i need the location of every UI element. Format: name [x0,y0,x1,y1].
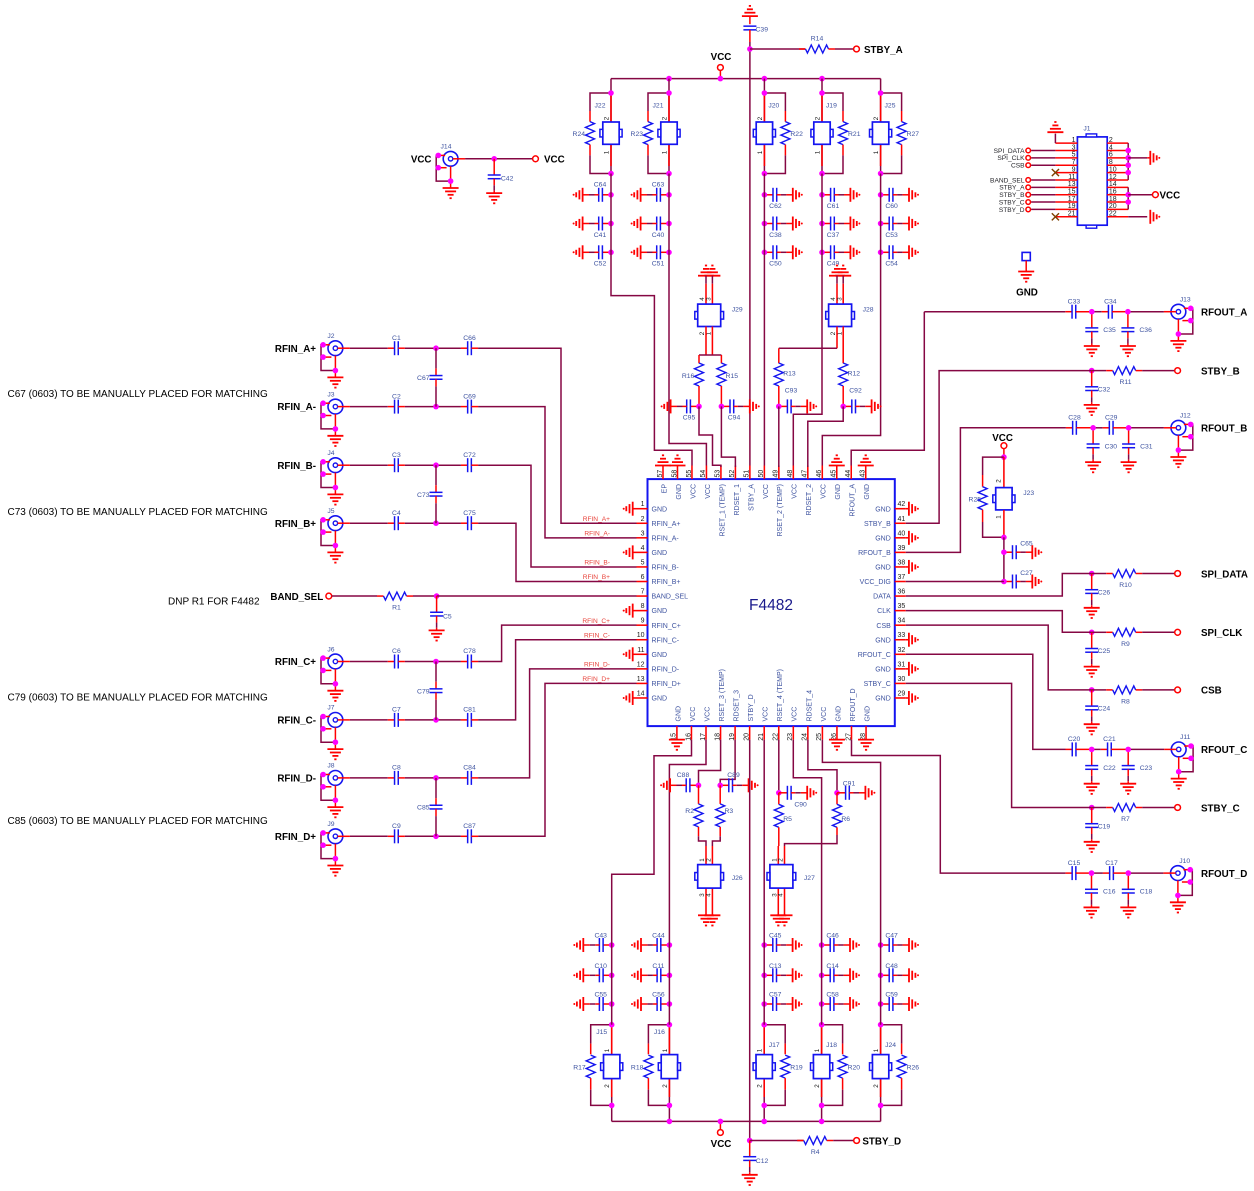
svg-text:58: 58 [671,470,678,478]
svg-text:3: 3 [836,297,843,301]
svg-text:RFIN_B+: RFIN_B+ [652,579,681,586]
svg-text:DNP R1 FOR F4482: DNP R1 FOR F4482 [168,597,260,608]
pin 24 RDSET_4 (bottom) [802,690,814,741]
svg-text:VCC: VCC [1160,191,1181,202]
junction SPI_CLK node [1089,630,1095,636]
terminal CSB (J1) [1011,163,1055,170]
wire RFIN_B- to IC [478,465,636,567]
svg-text:C93: C93 [785,387,798,394]
note text C73 [8,507,268,518]
svg-text:C34: C34 [1104,298,1117,305]
svg-text:RFIN_B-: RFIN_B- [652,565,680,572]
resistor R8 [1092,686,1175,706]
svg-text:4: 4 [706,893,713,897]
junction J15 bottom [609,1103,615,1109]
svg-text:C61: C61 [827,203,840,210]
svg-text:J21: J21 [653,102,664,109]
svg-text:VCC: VCC [705,484,712,499]
svg-text:R18: R18 [631,1065,644,1072]
pin 39 RFOUT_B (right) [858,545,906,557]
capacitor C85 (matching) [417,778,442,836]
svg-text:STBY_B: STBY_B [864,521,891,528]
svg-text:41: 41 [898,516,906,523]
power VCC (bottom bus) [711,1119,732,1150]
svg-text:1: 1 [873,1048,880,1052]
pin 2 (J1 right) [1107,137,1128,144]
wire CLK from pin 35 [906,611,1092,633]
pin 35 CLK (right) [877,603,906,615]
capacitor C36 (shunt) [1120,309,1152,356]
note text C67 [8,389,268,400]
pin 10 (J1 right) [1107,166,1128,173]
terminal VCC (right) [533,155,565,166]
capacitor C22 (shunt) [1084,747,1116,794]
svg-text:RFIN_A+: RFIN_A+ [275,344,316,355]
svg-text:13: 13 [1068,181,1076,188]
resistor R2 [685,785,703,836]
capacitor C24 (shunt) [1084,690,1111,735]
wire RFIN_D- to IC [478,669,636,778]
terminal BAND_SEL [270,592,331,603]
capacitor C81 [461,707,478,727]
wire RFIN_C+ chain [350,661,461,663]
junction J20 bottom [762,171,768,177]
pin 13 RFIN_D+ (left) [637,676,681,688]
svg-text:C5: C5 [443,613,452,620]
capacitor C61 [819,188,860,210]
svg-text:36: 36 [898,589,906,596]
no-connect X (J1 pin 21) [1052,213,1059,220]
resistor R1 [332,592,437,612]
wire RFIN_D- chain [350,777,461,779]
wire J24 VCC to pin 25 [822,740,880,945]
junction J18 bus [819,1119,825,1125]
capacitor C49 [819,245,860,267]
pin 42 GND (right) [875,501,919,516]
svg-text:5: 5 [641,559,645,566]
svg-text:GND: GND [875,637,891,644]
wire RSET_1 to pin 53 [699,406,721,467]
junction STBY_A node [747,46,753,52]
resistor R14 [750,36,854,53]
svg-text:C41: C41 [594,232,607,239]
capacitor C62 [762,188,803,210]
terminal STBY_A (J1) [999,185,1055,192]
svg-text:GND: GND [652,550,668,557]
svg-text:RFIN_D-: RFIN_D- [584,662,610,669]
svg-text:R26: R26 [907,1065,920,1072]
svg-text:R7: R7 [1121,816,1130,823]
svg-text:C72: C72 [463,452,476,459]
svg-text:VCC: VCC [704,707,711,722]
junction J25 top [878,90,884,96]
net label RFIN_C+ [582,618,610,625]
wire J28 pin 2 to R13 [779,327,837,349]
pin 4 GND (left) [623,545,667,560]
svg-text:12: 12 [637,661,645,668]
capacitor C88 [660,772,701,792]
svg-text:53: 53 [715,470,722,478]
jumper J18 [811,1027,838,1097]
capacitor C12 [742,1141,769,1186]
svg-text:R13: R13 [783,371,796,378]
svg-text:C54: C54 [885,261,898,268]
junction bus J21 [666,76,672,82]
capacitor C95 [661,399,702,421]
capacitor C39 [743,26,768,42]
pin 3 RFIN_A- (left) [637,530,680,542]
wire J19 branch [822,79,843,174]
capacitor C5 [429,596,452,641]
svg-text:J3: J3 [327,391,334,398]
wire RFIN_D+ chain [350,835,461,837]
capacitor C60 [878,188,919,210]
junction RFIN_A+ mid [433,345,439,351]
svg-text:C79: C79 [417,688,430,695]
resistor R5 [774,793,792,846]
svg-text:C43: C43 [594,933,607,940]
pin 13 (J1 left) [1055,181,1077,188]
svg-text:38: 38 [898,559,906,566]
svg-text:RFOUT_D: RFOUT_D [850,688,857,721]
svg-text:SPI_CLK: SPI_CLK [1201,628,1242,639]
svg-text:50: 50 [758,470,765,478]
svg-text:J19: J19 [826,102,837,109]
note text C79 [8,692,268,703]
pin 5 RFIN_B- (left) [637,559,680,571]
svg-text:14: 14 [1109,181,1117,188]
svg-text:C14: C14 [826,963,839,970]
svg-text:8: 8 [641,603,645,610]
svg-text:GND: GND [652,652,668,659]
resistor R25 [969,457,1004,537]
wire STBY_C from pin 30 [906,683,1092,807]
junction SPI_DATA node [1089,571,1095,577]
svg-text:STBY_D: STBY_D [748,694,755,721]
capacitor C64 [573,182,614,202]
capacitor C19 (shunt) [1084,808,1111,853]
svg-text:J25: J25 [885,102,896,109]
svg-text:RFIN_B+: RFIN_B+ [275,519,316,530]
svg-text:R22: R22 [790,131,803,138]
svg-text:J22: J22 [595,102,606,109]
resistor R20 [838,1044,860,1090]
capacitor C92 [840,387,881,413]
terminal STBY_B (J1) [999,192,1055,199]
svg-text:1: 1 [603,150,610,154]
wire VCC to terminal [465,158,532,160]
svg-text:RFOUT_B: RFOUT_B [858,550,891,557]
wire J21 VCC to pin 54 [669,252,706,465]
svg-text:J11: J11 [1180,734,1191,741]
junction RFIN_A- mid [433,404,439,410]
svg-text:18: 18 [1109,196,1117,203]
node RFIN_D+ [275,832,316,843]
wire J19 VCC to pin 48 [793,252,822,465]
svg-text:43: 43 [860,470,867,478]
svg-text:C22: C22 [1103,765,1116,772]
svg-text:R6: R6 [841,816,850,823]
capacitor C10 [573,963,614,982]
capacitor C84 [461,765,478,785]
svg-text:SPI_CLK: SPI_CLK [997,155,1025,162]
connector J2 BNC [320,333,350,388]
node VCC (J14) [411,155,432,166]
svg-text:14: 14 [637,690,645,697]
capacitor C32 (shunt) [1084,371,1111,416]
svg-text:C45: C45 [769,933,782,940]
svg-text:CLK: CLK [877,608,891,615]
pin 7 BAND_SEL (left) [637,589,689,601]
svg-text:STBY_C: STBY_C [999,199,1025,206]
svg-text:RSET_2 (TEMP): RSET_2 (TEMP) [777,484,784,537]
svg-text:VCC: VCC [792,707,799,722]
node RFIN_D- [277,774,316,785]
wire J25 branch [881,79,902,174]
svg-text:C32: C32 [1098,386,1111,393]
junction C42 node [491,156,497,162]
net label RFIN_C- [584,632,610,639]
svg-text:C37: C37 [827,232,840,239]
wire RFIN_A- to IC [478,407,636,538]
wire J21 branch [648,79,669,174]
pin 23 VCC (bottom) [787,707,799,741]
capacitor C9 [388,823,436,843]
wire J19 trunk [821,174,823,253]
svg-text:R11: R11 [1120,379,1132,386]
capacitor C65 [1001,541,1042,560]
pin 11 GND (left) [623,647,667,662]
svg-text:29: 29 [898,690,906,697]
wire DATA from pin 36 [906,574,1092,597]
svg-text:RFOUT_A: RFOUT_A [1201,308,1247,319]
svg-text:SPI_DATA: SPI_DATA [994,148,1026,155]
svg-text:C57: C57 [769,992,782,999]
svg-text:2: 2 [757,116,764,120]
svg-text:VCC: VCC [544,155,565,166]
capacitor C48 [878,963,919,982]
svg-text:11: 11 [1068,174,1075,181]
ground (J1 pin 6) [1128,151,1160,165]
svg-text:1: 1 [814,1048,821,1052]
svg-text:C4: C4 [392,510,401,517]
svg-text:C31: C31 [1140,443,1153,450]
pin 21 (J1 left) [1055,211,1077,218]
svg-text:7: 7 [641,589,645,596]
svg-text:RFIN_C+: RFIN_C+ [652,623,681,630]
net label RFIN_B- [584,560,610,567]
svg-text:RFOUT_B: RFOUT_B [1201,424,1247,435]
svg-text:55: 55 [686,470,693,478]
pin 1 GND (left) [623,501,667,516]
terminal SPI_CLK (J1) [997,155,1055,162]
svg-text:RSET_4 (TEMP): RSET_4 (TEMP) [777,669,784,722]
junction J18 top [819,1022,825,1028]
svg-text:RFOUT_C: RFOUT_C [1201,745,1247,756]
wire J18 branch [822,1025,843,1122]
capacitor C37 [819,217,860,239]
pin 21 VCC (bottom) [758,707,770,741]
svg-text:RSET_3 (TEMP): RSET_3 (TEMP) [719,669,726,722]
pin 12 RFIN_D- (left) [637,661,680,673]
capacitor C87 [461,823,478,843]
wire RFIN_C- chain [350,719,461,721]
svg-text:J8: J8 [327,763,334,770]
wire RDSET_3 from pin 19 [720,740,735,786]
svg-text:STBY_C: STBY_C [1201,803,1240,814]
capacitor C78 [461,648,478,668]
connector J9 BNC [320,821,350,876]
svg-text:J23: J23 [1023,490,1034,497]
jumper J25 [870,96,896,167]
terminal SPI_DATA [1175,569,1248,580]
svg-text:C55: C55 [594,992,607,999]
pin 17 (J1 left) [1055,196,1077,203]
svg-text:J20: J20 [768,102,779,109]
wire J18 trunk [821,945,823,1025]
svg-text:11: 11 [637,647,644,654]
svg-text:C51: C51 [652,261,665,268]
svg-text:54: 54 [700,470,707,478]
node RFOUT_A [1201,308,1247,319]
node RFIN_B+ [275,519,316,530]
capacitor C29 [1103,415,1129,435]
wire RFOUT_B chain [1094,427,1164,429]
wire STBY_D vertical from pin 20 [749,740,751,1141]
svg-text:R25: R25 [969,497,982,504]
junction J18 bottom [819,1103,825,1109]
junction J16 bottom [667,1103,673,1109]
svg-text:C75: C75 [463,510,476,517]
svg-text:VCC: VCC [821,707,828,722]
wire J1 VCC bracket (pins 14-20) [1125,187,1131,209]
svg-text:C42: C42 [501,176,514,183]
pin 54 VCC (top) [700,466,712,499]
svg-text:J4: J4 [327,450,334,457]
capacitor C47 [878,933,919,952]
svg-text:R15: R15 [726,373,739,380]
capacitor C90 [779,786,817,809]
junction J25 bottom [878,171,884,177]
svg-text:J26: J26 [732,875,743,882]
svg-text:C13: C13 [769,963,782,970]
svg-text:RFIN_C+: RFIN_C+ [275,657,316,668]
capacitor C50 [762,245,803,267]
wire RFOUT_D from pin 27 [852,740,1066,874]
svg-text:GND: GND [1016,287,1038,298]
svg-text:C9: C9 [392,823,401,830]
pin 8 GND (left) [623,603,667,618]
svg-text:RFIN_D+: RFIN_D+ [582,676,610,683]
wire J22 trunk [610,174,612,253]
pin 26 GND (bottom) [829,706,845,750]
svg-text:C52: C52 [594,261,607,268]
pin 9 RFIN_C+ (left) [637,618,681,630]
pin 46 VCC (top) [816,466,828,499]
junction RFIN_B+ mid [433,520,439,526]
wire J24 trunk [880,945,882,1025]
svg-text:R19: R19 [790,1065,803,1072]
svg-text:STBY_A: STBY_A [999,185,1025,192]
svg-text:C78: C78 [463,648,476,655]
svg-text:C40: C40 [652,232,665,239]
svg-text:12: 12 [1109,174,1117,181]
jumper J23 [993,457,1035,537]
connector J13 BNC [1164,297,1194,352]
ground (below J26) [698,915,720,925]
svg-text:C84: C84 [463,765,476,772]
svg-text:1: 1 [1072,137,1076,144]
wire J17 VCC to pin 21 [763,740,765,945]
svg-text:1: 1 [661,150,668,154]
resistor R6 [833,793,851,835]
resistor R11 [1092,367,1175,387]
svg-text:GND: GND [875,535,891,542]
wire J28 pin 1 to R12 [842,327,844,364]
terminal STBY_C (J1) [999,199,1056,206]
wire R2/R3 to J26 [699,836,721,846]
junction J21 bottom [666,171,672,177]
svg-text:J14: J14 [441,144,452,151]
svg-text:32: 32 [898,647,906,654]
wire RSET_4 from pin 22 [778,740,780,793]
svg-text:VCC: VCC [711,1139,732,1150]
svg-text:R12: R12 [848,371,861,378]
pin 37 VCC_DIG (right) [860,574,906,586]
wire BAND_SEL to pin 7 [437,595,637,597]
wire RFOUT_C from pin 32 [906,654,1066,749]
pin 31 GND (right) [875,661,919,676]
svg-text:C26: C26 [1098,589,1111,596]
svg-text:J16: J16 [654,1029,665,1036]
pin 16 (J1 right) [1107,188,1128,195]
svg-text:BAND_SEL: BAND_SEL [652,594,689,601]
capacitor C1 [388,335,436,355]
pin 11 (J1 left) [1055,174,1077,181]
svg-text:C94: C94 [728,415,741,422]
svg-text:9: 9 [641,618,645,625]
svg-text:VCC: VCC [821,484,828,499]
capacitor C7 [388,707,436,727]
capacitor C31 (shunt) [1121,425,1153,472]
capacitor C75 [461,510,478,530]
svg-text:C63: C63 [652,182,665,189]
svg-text:CSB: CSB [1011,163,1025,170]
capacitor C54 [878,245,919,267]
terminal STBY_D (J1) [999,207,1056,214]
svg-text:35: 35 [898,603,906,610]
svg-text:J12: J12 [1180,413,1191,420]
svg-text:16: 16 [1109,188,1117,195]
svg-text:R14: R14 [811,36,824,43]
svg-text:C67: C67 [417,375,430,382]
pin 48 VCC (top) [787,466,799,499]
capacitor C8 [388,765,436,785]
pin 18 (J1 right) [1107,196,1128,203]
capacitor C17 [1103,860,1128,880]
svg-text:RSET_1 (TEMP): RSET_1 (TEMP) [719,484,726,537]
wire RDSET_4 from pin 24 [808,740,837,793]
pin 30 STBY_C (right) [864,676,906,688]
junction J19 bottom [819,171,825,177]
capacitor C56 [631,992,672,1011]
svg-text:R9: R9 [1121,641,1130,648]
terminal BAND_SEL (J1) [990,177,1055,184]
wire RFOUT_B from pin 39 [906,428,1066,553]
resistor R24 [573,111,595,155]
jumper J27 [767,846,815,915]
junction J19 top [819,90,825,96]
